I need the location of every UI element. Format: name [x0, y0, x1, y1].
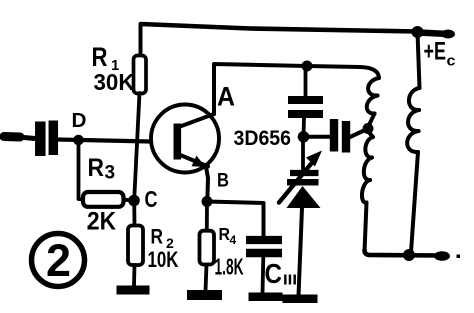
wire base — [58, 140, 151, 142]
svg-text:C: C — [145, 186, 158, 212]
node +Ec junction — [412, 26, 424, 38]
ground under R2 — [117, 286, 150, 295]
svg-text:2: 2 — [46, 235, 71, 286]
capacitor C2 — [334, 119, 346, 153]
badge figure number 2 — [32, 234, 85, 287]
svg-text:C: C — [265, 258, 283, 289]
node coil tap — [363, 123, 374, 134]
svg-text:2K: 2K — [87, 208, 116, 236]
svg-text:10K: 10K — [148, 247, 179, 272]
capacitor C3 — [246, 240, 282, 293]
node varicap junction — [298, 131, 310, 143]
svg-text:1.8K: 1.8K — [215, 254, 244, 280]
wire collector to A rail — [214, 64, 307, 114]
node A junction — [302, 61, 313, 72]
inductor L2 — [407, 32, 419, 252]
varicap diode D1 — [279, 137, 322, 296]
wire top supply rail — [141, 24, 455, 39]
label R1 30K — [92, 42, 135, 95]
wire emitter to node B — [206, 167, 208, 202]
wire junction to C2 — [308, 135, 330, 139]
wire C2 to coil tap — [350, 131, 364, 138]
label R4 1.8K — [215, 224, 244, 280]
svg-text:R: R — [88, 154, 105, 182]
capacitor input coupling — [4, 121, 53, 157]
ground under C3 — [249, 293, 283, 302]
label R2 10K — [148, 225, 179, 273]
resistor R4 — [200, 202, 215, 292]
svg-text:c: c — [447, 53, 456, 70]
wire bottom — [365, 250, 461, 261]
ground under R4 — [187, 290, 222, 300]
resistor R3 — [83, 192, 130, 207]
node B — [202, 196, 213, 207]
svg-text:3D656: 3D656 — [234, 126, 292, 150]
svg-text:30K: 30K — [94, 69, 135, 95]
wire A rail to L1 — [307, 66, 360, 67]
label R3 2K — [87, 154, 116, 236]
svg-text:3: 3 — [105, 163, 116, 184]
svg-text:III: III — [283, 272, 297, 289]
ground under varicap — [283, 295, 318, 304]
label +Ec — [424, 38, 456, 70]
label C3 — [265, 258, 298, 289]
wire node B to C3 — [207, 202, 264, 237]
speck near badge — [88, 226, 92, 230]
svg-text:R: R — [151, 225, 164, 249]
node C — [128, 195, 140, 207]
node D — [73, 135, 84, 146]
svg-text:B: B — [217, 171, 229, 192]
svg-text:D: D — [72, 110, 87, 132]
resistor R2 — [128, 201, 143, 287]
wire D to R3 — [79, 141, 85, 200]
svg-text:R: R — [92, 42, 108, 72]
transistor Q1 — [151, 105, 219, 173]
svg-text:+E: +E — [424, 38, 447, 66]
inductor L1 — [360, 67, 379, 252]
resistor R1 — [134, 24, 147, 200]
svg-text:4: 4 — [230, 233, 237, 247]
node L2 bottom junction — [403, 249, 415, 261]
svg-text:A: A — [217, 82, 235, 112]
capacitor C1 top — [288, 66, 323, 137]
